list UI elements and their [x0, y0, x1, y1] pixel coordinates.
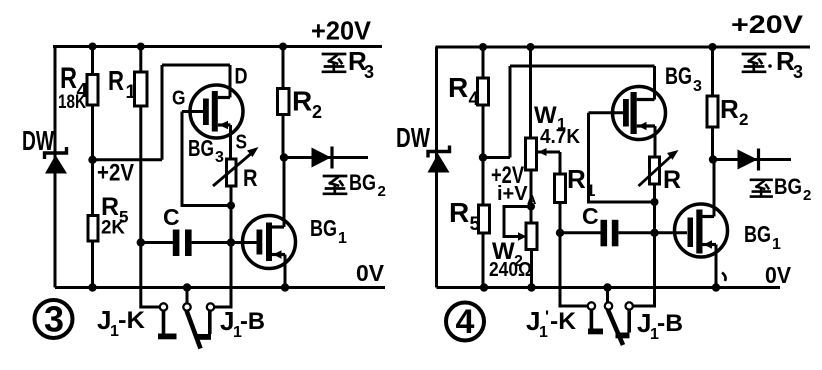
svg-text:DW: DW [22, 125, 54, 156]
svg-text:2K: 2K [101, 217, 125, 239]
node: rail junction at R4 top [89, 43, 97, 51]
zener diode DW (circuit 4) [428, 146, 450, 173]
node: W2 bottom rail junction [527, 283, 535, 291]
svg-text:1: 1 [772, 236, 781, 253]
svg-text:2: 2 [803, 187, 811, 204]
+20V rail (top, circuit 4) [436, 46, 811, 49]
svg-text:4: 4 [456, 303, 475, 341]
label BG3 (circuit 4) [665, 63, 702, 95]
label J1'-K (circuit 4) [526, 306, 577, 341]
switch contact right (J1-B) [207, 303, 214, 310]
wire: R bottom down through C node to switch contact J1-B [214, 186, 231, 307]
svg-text:BG: BG [349, 170, 376, 195]
svg-text:3: 3 [693, 78, 702, 95]
label R5 (circuit 4) [449, 197, 481, 235]
svg-text:BG: BG [665, 63, 692, 90]
node: rail junction switch middle [183, 283, 191, 291]
svg-text:C: C [582, 203, 599, 229]
svg-text:S: S [236, 132, 248, 154]
svg-text:R: R [108, 65, 124, 96]
svg-text:3: 3 [793, 62, 803, 82]
svg-text:0V: 0V [356, 260, 385, 286]
W2 wiper arrowhead [518, 232, 527, 240]
switch contact middle (circuit 4) [605, 302, 612, 309]
switch contact left J1-K (circuit 4) [588, 302, 595, 309]
svg-text:BG: BG [310, 215, 337, 241]
svg-text:1: 1 [338, 230, 347, 247]
svg-text:D: D [235, 64, 248, 89]
wire: BG3 gate lead (circuit 4) [589, 111, 624, 114]
svg-text:R: R [567, 164, 586, 194]
node: BG1 source on rail [281, 283, 289, 291]
wire: W2 bottom to rail [530, 250, 533, 288]
diode to BG2 (circuit 4) [713, 149, 791, 171]
wire: BG3 drain lead [229, 65, 232, 98]
switch contact left (J1-K) [160, 303, 167, 310]
resistor R1 (circuit 4) [555, 174, 566, 203]
svg-text:3: 3 [44, 299, 64, 340]
node: rail junction switch middle (circuit 4) [603, 283, 611, 291]
node: +2V junction (circuit 4) [479, 153, 487, 161]
svg-text:R: R [292, 86, 312, 117]
wire: BG3 source to R (circuit 4) [654, 126, 657, 157]
label R4 (circuit 4) [448, 72, 480, 110]
variable resistor R (source resistor) [213, 147, 259, 186]
node: BG1 source rail junction (circuit 4) [712, 283, 720, 291]
svg-text:3: 3 [364, 62, 374, 82]
node: W2 wiper loop junction [527, 203, 535, 211]
transistor BG1 (MOSFET) [243, 216, 296, 269]
svg-text:3: 3 [215, 149, 224, 166]
wire: gate loop down and right [182, 112, 231, 206]
wire: BG1 source down to rail (circuit 4) [715, 245, 718, 288]
resistor R2 (circuit 4) [707, 96, 718, 127]
wire: +2V line to riser (circuit 4) [483, 156, 510, 159]
svg-text:4.7K: 4.7K [540, 126, 581, 148]
svg-text:i+V: i+V [497, 183, 528, 205]
resistor R5 [88, 216, 98, 242]
node: C left junction (circuit 4) [556, 229, 564, 237]
wire: BG1 source down to 0V [284, 255, 287, 288]
wire: gate loop (circuit 4) [589, 113, 655, 202]
node: rail junction at R2 top (circuit 4) [709, 43, 717, 51]
wire: BG1 drain up to diode node [283, 158, 286, 228]
switch right pin (circuit 4) [616, 310, 630, 339]
switch contact right J1-B (circuit 4) [626, 302, 633, 309]
svg-text:2: 2 [739, 110, 748, 129]
capacitor C [141, 230, 257, 257]
wire: R2 column (circuit 4) [711, 47, 714, 160]
switch blade (circuit 4) [608, 310, 623, 346]
scan tick near 0V [722, 273, 726, 282]
svg-text:0V: 0V [765, 262, 792, 288]
label R1 (circuit 4) [567, 164, 595, 200]
node +2V junction dot [88, 156, 96, 164]
wire: R2 column [282, 47, 285, 158]
svg-text:W: W [534, 102, 557, 129]
wire: middle contact stem (circuit 4) [606, 288, 609, 303]
wire: top loop to BG3 drain (circuit 4) [510, 65, 655, 68]
node: diode junction (circuit 4) [709, 155, 717, 163]
variable resistor R (circuit 4) [639, 150, 679, 186]
switch contact middle [183, 303, 190, 310]
node: rail junction at R1 top [137, 43, 145, 51]
node: rail junction at W1 top [527, 43, 535, 51]
transistor BG3 (circuit 4) [613, 87, 666, 140]
node: diode junction [280, 153, 288, 161]
svg-text:1: 1 [539, 324, 548, 341]
label J1-K [97, 305, 146, 340]
+20V rail (top, circuit 3) [53, 45, 382, 48]
switch right pin [198, 311, 212, 340]
svg-text:4: 4 [469, 89, 480, 110]
diode to BG2 [284, 147, 368, 169]
label W1 4.7K [534, 102, 581, 148]
svg-text:1: 1 [126, 82, 137, 103]
wire: left border vertical (DW branch, circuit 4) [435, 47, 438, 288]
label ZHI BG2 [324, 170, 386, 200]
label J1-B (circuit 4) [637, 308, 683, 343]
svg-text:18K: 18K [58, 92, 86, 113]
svg-text:2: 2 [312, 102, 322, 122]
svg-text:+20V: +20V [311, 16, 372, 46]
transistor BG1 (circuit 4) [675, 204, 728, 257]
svg-text:R: R [448, 72, 468, 103]
svg-text:240Ω: 240Ω [489, 259, 532, 281]
node: rail junction at R4 top (circuit 4) [479, 43, 487, 51]
svg-text:-B: -B [657, 310, 683, 337]
svg-text:': ' [545, 307, 549, 326]
wire: W1 column [529, 47, 532, 138]
node: rail junction R5 bottom [88, 283, 96, 291]
svg-text:-K: -K [118, 307, 146, 334]
zener diode DW [45, 147, 68, 174]
label R4 18K [58, 62, 89, 113]
wire: riser up from +2V [161, 65, 164, 160]
potentiometer W2 [526, 223, 537, 250]
wire: wiper down to R1 [559, 152, 562, 174]
node: R5 bottom rail junction (circuit 4) [480, 283, 488, 291]
svg-text:BG: BG [744, 221, 771, 247]
svg-text:+20V: +20V [731, 11, 803, 39]
wire: R4/R5 column (circuit 4) [482, 47, 485, 288]
capacitor C (circuit 4) [560, 220, 687, 247]
wire: R1 bottom down to switch contact J1-K (circuit 4) [560, 203, 588, 307]
label R5 2K [101, 193, 128, 239]
svg-text:-B: -B [240, 308, 265, 335]
svg-text:R: R [663, 166, 681, 194]
wire: +2V line to riser [93, 158, 163, 161]
svg-text:R: R [449, 197, 469, 228]
wire: riser up (circuit 4) [509, 66, 512, 158]
label BG3 [188, 135, 224, 166]
wire: middle contact stem [186, 288, 189, 304]
label J1-B [220, 306, 265, 341]
label BG1 (circuit 4) [744, 221, 781, 253]
svg-text:5: 5 [470, 214, 481, 235]
resistor R1 [135, 72, 148, 106]
wire: W2 wiper bracket [504, 207, 531, 237]
badge circled 4 [446, 303, 484, 342]
svg-text:C: C [163, 204, 180, 230]
svg-text:R: R [720, 94, 739, 124]
svg-text:DW: DW [396, 122, 430, 153]
node: gate loop junction (circuit 4) [651, 198, 659, 206]
node: C right junction (circuit 4) [650, 229, 658, 237]
switch left pin (circuit 4) [588, 310, 603, 335]
label BG1 [310, 215, 347, 247]
potentiometer W1 [526, 138, 561, 170]
resistor R5 (circuit 4) [479, 205, 490, 233]
wire: R bottom down to switch contact J1-B (circuit 4) [633, 184, 655, 306]
wire: top loop to BG3 drain [162, 64, 230, 67]
node: gate loop junction at R bottom [227, 202, 235, 210]
svg-text:-K: -K [550, 308, 577, 335]
wire: R1 column down to switch contact J1-K [141, 47, 160, 308]
svg-text:G: G [172, 88, 186, 110]
label R2 [292, 86, 322, 123]
wire: W1 bottom to W2 [530, 170, 533, 223]
wire: left border vertical (DW branch) [54, 47, 57, 288]
switch blade [187, 311, 201, 349]
label (+VA [497, 183, 537, 207]
wire: BG3 drain lead (circuit 4) [653, 66, 656, 100]
wire: BG1 drain up to diode node (circuit 4) [713, 160, 716, 217]
svg-text:R: R [243, 165, 258, 192]
switch left pin [158, 311, 177, 340]
resistor R4 [87, 75, 98, 106]
label R1 [108, 65, 137, 103]
0V rail (bottom, circuit 3) [55, 286, 385, 289]
op: transistor BG3 (MOSFET) [190, 85, 243, 138]
resistor R4 (circuit 4) [478, 78, 489, 105]
label ZHI R3 [323, 46, 374, 82]
badge circled 3 [35, 299, 73, 340]
label W2 240ohm [489, 238, 532, 281]
node: C left junction [137, 238, 145, 246]
wire: BG3 source lead to R [229, 125, 232, 159]
0V rail (bottom, circuit 4) [437, 286, 781, 289]
svg-text:BG: BG [774, 174, 802, 199]
svg-text:BG: BG [188, 135, 214, 161]
resistor R2 [278, 89, 290, 115]
label ZHI BG2 (circuit 4) [751, 174, 811, 204]
node: rail junction at R2 top [279, 43, 287, 51]
wire: BG3 gate lead [182, 110, 203, 113]
wire: R4/R5 column [91, 47, 94, 288]
label R2 (circuit 4) [720, 94, 748, 129]
svg-text:+2V: +2V [97, 160, 134, 187]
svg-text:R: R [60, 62, 77, 95]
label ZHI R3 (circuit 4) [743, 46, 803, 82]
svg-text:2: 2 [378, 183, 386, 200]
node: C right junction [227, 238, 235, 246]
